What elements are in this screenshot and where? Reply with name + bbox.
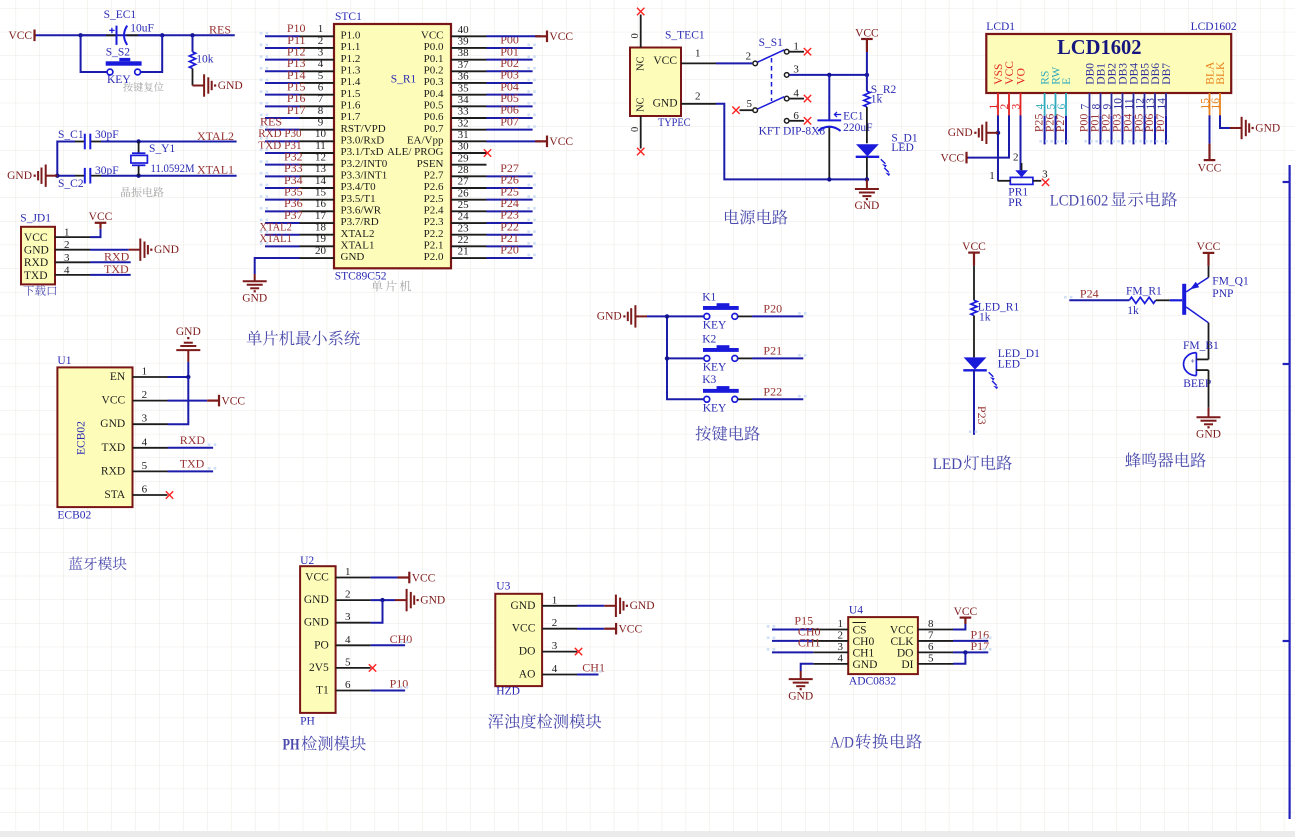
power port VCC (download port) [89,211,113,229]
svg-text:21: 21 [458,246,469,258]
svg-text:19: 19 [315,233,327,245]
svg-text:10uF: 10uF [130,23,154,35]
svg-text:P27: P27 [1053,114,1067,133]
net label RES [209,22,231,36]
wire U4 pin4 GND [801,664,814,671]
svg-text:VCC: VCC [305,572,329,584]
svg-text:16: 16 [1210,98,1222,110]
junction EC1 top [827,73,831,77]
wire U2 pin3 GND link [371,600,383,623]
svg-text:1: 1 [142,366,148,378]
svg-text:VCC: VCC [890,625,914,637]
wire MCU pin 26 [487,199,533,201]
svg-text:18: 18 [315,221,327,233]
net label P35 (MCU left) [284,184,303,198]
title key circuit [696,426,760,441]
svg-text:4: 4 [142,436,148,448]
svg-text:VCC: VCC [954,606,978,618]
svg-text:VCC: VCC [549,31,573,43]
net label P33 (MCU left) [284,161,303,175]
svg-text:P1.7: P1.7 [341,111,361,123]
svg-text:3: 3 [64,252,70,264]
LCD pin 16 BLK [1210,61,1227,116]
svg-text:LED: LED [998,359,1020,371]
svg-text:GND: GND [853,659,878,671]
svg-text:FM_Q1: FM_Q1 [1212,276,1249,288]
module U3 HZD turbidity [495,581,577,698]
power ground GND (download port) [129,239,179,261]
svg-text:PSEN: PSEN [417,158,444,170]
svg-text:DO: DO [897,647,914,659]
svg-text:1: 1 [318,23,324,35]
wire MCU pin 19 [265,245,300,247]
no connect S_S1 pin4 [804,95,811,102]
capacitor EC1 220uF [817,75,872,179]
bottom scrollbar strip [0,831,1295,837]
svg-text:CLK: CLK [891,636,915,648]
wire MCU pin 24 [487,222,533,224]
svg-text:K1: K1 [702,291,716,303]
svg-text:VO: VO [1015,68,1027,85]
wire MCU pin 32 [487,129,533,131]
junction U2 GND [380,598,384,602]
no connect TYPEC bottom [637,148,644,155]
wire MCU pin 13 [265,175,300,177]
wire VCC rail to RES [36,34,235,36]
wire MCU pin 25 [487,210,533,212]
svg-text:9: 9 [318,116,324,128]
wire keys GND rail [647,316,704,399]
wire buzzer to GND [1208,370,1210,408]
svg-text:P07: P07 [500,114,519,128]
wire LCD P05 [1144,116,1146,145]
wire LCD P04 [1133,116,1135,145]
svg-text:3: 3 [345,611,351,623]
svg-text:TXD: TXD [180,457,205,471]
wire U4 pin3 CH1 [772,651,813,653]
net label P02 (LCD) [1099,114,1113,133]
switch K2 KEY [702,333,752,373]
wire LCD P03 [1122,116,1124,145]
svg-text:P3.2/INT0: P3.2/INT0 [341,158,388,170]
net label P13 (MCU left) [287,56,306,70]
no connect S_S1 pin6 [804,117,811,124]
wire XTAL1 net [90,175,236,177]
svg-text:K3: K3 [702,374,716,386]
net label P36 (MCU left) [284,196,303,210]
wire LCD pin15 BLA to VCC [1209,115,1211,143]
net label P10 (MCU left) [287,21,306,35]
module U1 ECB02 bluetooth [57,355,167,522]
svg-text:1: 1 [64,227,70,239]
wire JD1 pin3 RXD [90,261,131,263]
svg-text:BLK: BLK [1215,61,1227,85]
svg-text:P3.1/TxD: P3.1/TxD [341,146,384,158]
svg-text:DI: DI [901,659,913,671]
svg-text:4: 4 [64,264,70,276]
wire MCU pin 1 [265,35,300,37]
svg-text:14: 14 [1156,98,1168,110]
svg-text:XTAL2: XTAL2 [197,129,234,143]
svg-text:39: 39 [458,36,470,48]
net label P01 [500,44,519,58]
comment text crystal [121,187,164,197]
svg-text:3: 3 [838,641,844,653]
svg-text:14: 14 [315,175,327,187]
svg-text:GND: GND [948,127,973,139]
connector S_JD1 download port [20,213,90,285]
wire U4 pin7 P16 [953,640,988,642]
potentiometer PR1 PR [989,152,1048,210]
svg-text:27: 27 [458,176,470,188]
wire S_S1 pin3 to VCC rail [790,74,867,76]
svg-text:P2.2: P2.2 [424,228,444,240]
wire LCD P26 [1055,116,1057,145]
wire JD1 pin2 to GND [90,249,129,251]
svg-text:VCC: VCC [24,232,48,244]
title MCU section [247,330,360,345]
wire U3 pin2 VCC [577,628,604,630]
svg-text:31: 31 [458,129,469,141]
svg-text:4: 4 [345,634,351,646]
svg-text:RXD: RXD [101,465,125,477]
wire MCU pin 15 [265,199,300,201]
svg-text:A/D: A/D [830,732,854,751]
junction keys K2 [665,356,669,360]
wire U3 pin4 AO CH1 [577,674,599,676]
svg-text:BEEP: BEEP [1183,378,1211,390]
svg-text:P3.6/WR: P3.6/WR [341,205,382,217]
svg-text:P3.3/INT1: P3.3/INT1 [341,170,388,182]
ADC U4 ADC0832 [813,605,953,688]
svg-text:ECB02: ECB02 [57,510,91,522]
svg-text:GND: GND [7,170,32,182]
power ground GND (turbidity) [604,595,654,617]
svg-text:2: 2 [695,90,701,102]
junction (RES / resistor top) [190,33,194,37]
switch K3 KEY [702,374,752,414]
svg-text:LCD1: LCD1 [986,21,1015,33]
svg-text:7: 7 [318,93,324,105]
svg-text:S_JD1: S_JD1 [20,213,51,225]
LCD pin 13 DB6 [1145,63,1162,116]
no connect S_S1 pin5 [732,107,739,114]
net label CH0 (ADC) [798,625,821,639]
net label P05 [500,91,519,105]
wire MCU pin 2 [265,47,300,49]
svg-text:2: 2 [552,617,558,629]
svg-text:P0.7: P0.7 [424,123,444,135]
wire MCU pin 23 [487,234,533,236]
svg-text:S_S1: S_S1 [759,37,784,49]
svg-text:35: 35 [458,82,470,94]
svg-text:5: 5 [928,652,934,664]
wire U4 pin8 VCC [953,624,965,630]
svg-text:32: 32 [458,117,469,129]
net label P01 (LCD) [1088,114,1102,133]
svg-text:P1.3: P1.3 [341,65,361,77]
svg-text:STC89C52: STC89C52 [335,270,387,282]
svg-text:2: 2 [999,104,1011,110]
svg-text:3: 3 [1010,103,1022,109]
LCD pin 7 DB0 [1079,63,1096,116]
net label XTAL1 (crystal) [197,162,234,176]
net label P14 (MCU left) [287,68,306,82]
net label P04 [500,79,519,93]
title power circuit [725,209,788,224]
LCD pin 5 RW [1045,67,1062,116]
svg-text:S_Y1: S_Y1 [149,143,175,155]
svg-text:4: 4 [318,58,324,70]
svg-text:220uF: 220uF [843,122,872,134]
wire MCU pin 11 [265,152,300,154]
power ground GND (power circuit) [854,179,879,212]
power port VCC (power circuit) [855,27,879,52]
wire LCD P27 [1065,116,1067,145]
svg-text:CH0: CH0 [853,636,875,648]
svg-text:34: 34 [458,94,470,106]
svg-text:TYPEC: TYPEC [658,117,691,129]
svg-text:30pF: 30pF [95,165,119,177]
svg-text:ECB02: ECB02 [76,421,88,455]
wire MCU pin 36 [487,82,533,84]
net label P10 (PH) [390,677,409,691]
svg-text:GND: GND [510,600,535,612]
wire MCU pin 12 [265,164,300,166]
wire MCU pin40 VCC [487,35,541,37]
svg-text:11: 11 [315,140,326,152]
wire key P21 [752,357,803,359]
net label P23 [500,208,519,222]
resistor 10k (reset) [189,35,213,85]
svg-text:GND: GND [242,292,267,304]
wire MCU pin 18 [265,234,300,236]
no connect TYPEC top [637,8,644,15]
svg-text:VCC: VCC [412,572,436,584]
wire VCC column [866,52,868,91]
power port VCC (buzzer) [1197,241,1221,266]
title turbidity module [488,714,601,729]
no connect PR1 pin3 [1042,179,1049,186]
svg-text:P10: P10 [390,677,409,691]
svg-text:RST/VPD: RST/VPD [341,123,386,135]
svg-text:1: 1 [989,170,995,182]
wire collector to buzzer [1208,323,1210,360]
svg-text:VCC: VCC [940,153,964,165]
svg-text:P0.1: P0.1 [424,53,444,65]
transistor FM_Q1 PNP [1170,276,1249,323]
svg-text:2: 2 [345,589,351,601]
svg-text:GND: GND [304,617,329,629]
net label CH0 (PH) [390,632,413,646]
svg-text:RXD: RXD [180,433,206,447]
no connect U2 pin5 [369,664,376,671]
svg-text:NC: NC [636,97,647,112]
LCD pin 11 DB4 [1123,63,1140,116]
net label CH1 (ADC) [798,635,821,649]
net label TXD P31 (MCU left) [258,138,301,152]
svg-text:3: 3 [1042,168,1048,180]
LED S_D1 [856,132,918,179]
svg-text:P07: P07 [1153,114,1167,133]
svg-text:25: 25 [458,199,470,211]
svg-text:4: 4 [793,87,799,99]
net label P00 (LCD) [1077,114,1091,133]
wire MCU pin 10 [265,140,300,142]
svg-text:VCC: VCC [1198,162,1222,174]
svg-text:6: 6 [142,484,148,496]
net label P21 (key) [763,343,782,357]
net label P05 (LCD) [1132,114,1146,133]
svg-text:3: 3 [552,640,558,652]
wire LCD pin3 VO to pot [1020,115,1022,170]
svg-text:GND: GND [653,97,678,109]
svg-text:XTAL1: XTAL1 [260,231,292,245]
net label RXD (download port) [104,249,130,263]
svg-text:P0.4: P0.4 [424,88,444,100]
wire MCU pin 8 [265,117,300,119]
svg-text:KFT DIP-8X8: KFT DIP-8X8 [759,125,826,137]
power ground GND (keys) [597,305,647,327]
svg-text:2: 2 [838,629,844,641]
net label P21 [500,231,519,245]
svg-text:CH1: CH1 [853,647,875,659]
power ground GND (reset) [193,74,243,96]
svg-text:DB7: DB7 [1161,63,1173,85]
LCD pin 8 DB1 [1090,63,1107,116]
svg-text:AO: AO [519,669,536,681]
wire U4 pin2 CH0 [772,640,813,642]
svg-text:STA: STA [104,489,125,501]
net label P06 [500,103,519,117]
svg-text:EA/Vpp: EA/Vpp [407,135,444,147]
wire VCC to emitter [1208,266,1210,278]
power ground GND (LCD) [948,122,998,144]
svg-text:GND: GND [154,244,179,256]
power port VCC (MCU pin40) [535,31,573,44]
svg-text:GND: GND [597,311,622,323]
svg-text:S_R1: S_R1 [391,74,417,86]
svg-text:P17: P17 [971,639,990,653]
net label P06 (LCD) [1142,114,1156,133]
junction GND rail EC1 [827,177,831,181]
svg-text:33: 33 [458,106,470,118]
svg-text:3: 3 [142,413,148,425]
net label P04 (LCD) [1121,114,1135,133]
wire U2 pin1 VCC [371,577,398,579]
net label P32 (MCU left) [284,149,303,163]
junction LCD GND [996,131,1000,135]
svg-text:29: 29 [458,152,470,164]
svg-text:1: 1 [345,566,351,578]
LCD pin 14 DB7 [1156,63,1173,116]
svg-text:K2: K2 [702,333,716,345]
svg-text:7: 7 [928,629,934,641]
svg-text:36: 36 [458,71,470,83]
svg-text:12: 12 [315,151,326,163]
svg-text:GND: GND [420,594,445,606]
svg-text:FM_R1: FM_R1 [1126,286,1162,298]
svg-text:VCC: VCC [549,136,573,148]
comment text reset [123,82,164,92]
svg-text:P1.1: P1.1 [341,41,361,53]
wire U1 pin1 EN to GND [168,362,189,377]
svg-text:1: 1 [695,48,701,60]
wire MCU pin 22 [487,245,533,247]
svg-text:KEY: KEY [703,319,727,331]
wire MCU pin 9 [265,129,300,131]
svg-text:FM_B1: FM_B1 [1183,340,1219,352]
svg-text:3: 3 [318,46,324,58]
title ADC section [830,732,922,751]
wire LCD P00 [1089,116,1091,145]
net label P24 [500,196,519,210]
power ground GND (MCU) [242,274,267,304]
power port VCC (MCU pin31) [535,136,573,149]
svg-text:5: 5 [318,70,324,82]
svg-text:EC1: EC1 [843,111,864,123]
svg-text:VCC: VCC [8,30,32,42]
svg-text:1k: 1k [1127,305,1139,317]
wire key P22 [752,398,803,400]
wire U1 pin2 VCC [168,400,208,402]
resistor LED_R1 1k [971,300,1020,323]
svg-text:CH0: CH0 [390,632,413,646]
wire JD1 pin1 to VCC [90,229,101,237]
svg-text:1k: 1k [871,93,883,105]
switch S_S2 KEY [81,35,163,86]
wire U2 pin6 P10 [371,690,406,692]
svg-text:40: 40 [458,24,470,36]
svg-text:15: 15 [315,186,327,198]
net label P12 (MCU left) [287,44,306,58]
svg-text:20: 20 [315,245,327,257]
junction XTAL1/crystal bottom [136,174,140,178]
wire TYPEC pin2 to GND rail [716,104,867,180]
svg-text:XTAL1: XTAL1 [341,240,375,252]
net label P37 (MCU left) [284,208,303,222]
capacitor S_C2 30pF [58,165,119,190]
net label P02 [500,56,519,70]
wire U2 pin2 GND [371,599,395,601]
svg-text:S_S2: S_S2 [106,47,131,59]
svg-text:ALE/ PROG: ALE/ PROG [387,146,444,158]
svg-text:0: 0 [630,33,641,38]
svg-text:LED: LED [891,142,913,154]
svg-text:EN: EN [110,371,126,383]
net label RXD (bluetooth) [180,433,206,447]
title LCD section [1050,190,1177,209]
svg-text:37: 37 [458,59,470,71]
power ground GND (LCD backlight) [1230,117,1280,139]
svg-text:24: 24 [458,211,470,223]
svg-text:10k: 10k [196,54,214,66]
svg-text:U2: U2 [300,555,314,567]
wire U1 pin5 TXD [168,470,214,472]
power port VCC (ADC) [954,606,978,624]
wire MCU pin 27 [487,187,533,189]
net label P25 (LCD) [1032,114,1046,133]
svg-text:P0.2: P0.2 [424,65,444,77]
svg-text:VCC: VCC [421,30,444,42]
svg-text:CH1: CH1 [798,635,821,649]
svg-text:2: 2 [142,389,148,401]
net label P20 (key) [763,301,782,315]
LCD pin 2 VCC [999,61,1016,116]
net label P27 [500,161,519,175]
svg-text:P2.3: P2.3 [424,216,444,228]
label download port [23,285,56,296]
